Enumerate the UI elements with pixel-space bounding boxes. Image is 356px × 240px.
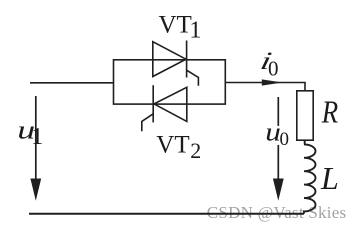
thyristor VT1 cathode bar (186, 41, 188, 78)
svg-text:2: 2 (190, 138, 201, 163)
resistor R body (297, 91, 313, 140)
svg-text:1: 1 (189, 17, 201, 43)
svg-text:VT: VT (156, 131, 189, 158)
svg-text:CSDN @Vast Skies: CSDN @Vast Skies (207, 203, 347, 222)
thyristor VT2 triangle (154, 87, 187, 121)
svg-text:0: 0 (280, 129, 290, 150)
svg-text:R: R (321, 95, 338, 130)
wire input left (30, 82, 114, 84)
arrow line u1 (35, 96, 37, 180)
svg-text:L: L (320, 160, 339, 196)
arrowhead u0 (273, 179, 284, 201)
svg-text:1: 1 (31, 124, 43, 150)
thyristor VT2 gate (142, 114, 153, 132)
wire bottom rail (29, 213, 304, 215)
svg-text:0: 0 (268, 57, 279, 81)
arrowhead u1 (30, 179, 41, 201)
arrow line u0 upper segment (277, 97, 279, 126)
thyristor VT1 gate (187, 70, 199, 86)
wire output to load (225, 83, 305, 91)
arrowhead i0 (262, 79, 283, 85)
arrow line u0 lower segment (277, 145, 279, 180)
node box of antiparallel pair (114, 60, 226, 104)
inductor L coil (304, 140, 316, 213)
svg-text:VT: VT (159, 11, 192, 38)
thyristor VT1 triangle (153, 42, 186, 77)
thyristor VT2 cathode bar (152, 85, 154, 122)
